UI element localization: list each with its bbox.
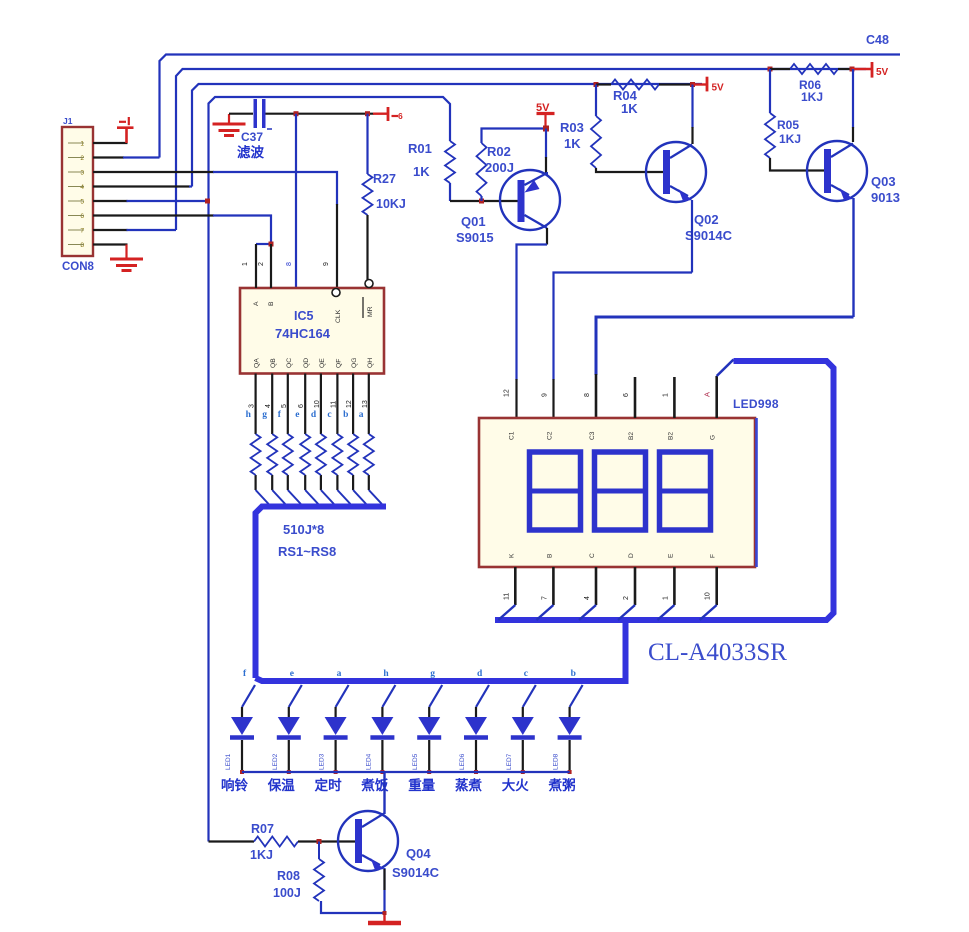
node R06 left [768, 67, 773, 72]
wire Q03 collector [852, 69, 854, 142]
wire IC output stubs [256, 374, 369, 491]
svg-text:定时: 定时 [315, 777, 342, 793]
resistor R02 [477, 143, 514, 196]
label CON8 [62, 261, 95, 273]
svg-text:8: 8 [80, 242, 84, 249]
wire display bottom diagonals [498, 605, 716, 620]
svg-text:煮粥: 煮粥 [548, 777, 576, 793]
wire R05 to Q03 base [770, 158, 825, 171]
svg-text:CL-A4033SR: CL-A4033SR [648, 639, 787, 666]
svg-text:5: 5 [281, 404, 288, 408]
wire R27 to IC MR [366, 215, 368, 280]
wire R06 to R05 [769, 69, 771, 113]
svg-text:e: e [290, 669, 294, 679]
svg-text:d: d [311, 410, 317, 420]
transistor Q02 S9014C [646, 142, 706, 202]
svg-text:1KJ: 1KJ [250, 848, 273, 862]
svg-text:b: b [343, 410, 348, 420]
wire IC pin A [256, 244, 271, 288]
wire top bus line 3 [192, 84, 702, 187]
svg-text:74HC164: 74HC164 [275, 326, 331, 341]
svg-text:100J: 100J [273, 886, 301, 900]
wire pin7 [93, 229, 176, 231]
svg-text:9: 9 [541, 393, 548, 397]
LED LED6 [455, 669, 489, 793]
svg-text:h: h [383, 669, 389, 679]
wire C37 right [266, 113, 375, 115]
pin numbers IC bottom [249, 400, 369, 408]
svg-text:B2: B2 [628, 432, 635, 440]
net label C48 [866, 33, 889, 47]
label Q04 [392, 846, 440, 880]
svg-text:R05: R05 [777, 118, 799, 132]
resistor R05 [765, 113, 801, 158]
wire Q04 emitter [321, 868, 385, 913]
power flag 5V Q01 [536, 102, 555, 126]
svg-text:1: 1 [662, 596, 669, 600]
svg-text:C48: C48 [866, 33, 889, 47]
resistor R06 [770, 64, 852, 104]
svg-text:J1: J1 [63, 116, 73, 126]
svg-text:A: A [703, 392, 712, 397]
svg-text:R01: R01 [408, 141, 432, 156]
wire C37 to R27 [366, 114, 368, 174]
svg-text:5V: 5V [876, 67, 889, 78]
transistor Q03 9013 [807, 141, 867, 201]
svg-text:QH: QH [367, 358, 374, 368]
svg-text:QA: QA [254, 358, 261, 368]
wire display pin4 stub [634, 377, 637, 418]
svg-text:C1: C1 [508, 431, 515, 440]
svg-text:R07: R07 [251, 822, 274, 836]
svg-text:A: A [253, 301, 260, 306]
op-amp IC5 74HC164 [240, 280, 384, 374]
wire Q01 emitter top [546, 172, 548, 176]
svg-text:c: c [524, 669, 528, 679]
svg-text:B2: B2 [667, 432, 674, 440]
svg-text:f: f [278, 410, 282, 420]
svg-text:B: B [268, 301, 275, 306]
wire top bus line 2 [176, 69, 866, 230]
wire gnd to C37 [229, 113, 253, 115]
svg-text:510J*8: 510J*8 [283, 522, 324, 537]
wire display pin5 stub [673, 377, 676, 418]
svg-text:LED5: LED5 [412, 753, 419, 770]
svg-text:LED3: LED3 [319, 753, 326, 770]
svg-text:F: F [710, 554, 717, 558]
LED LED7 [502, 669, 536, 793]
wire pin1 [93, 142, 128, 144]
svg-text:e: e [295, 410, 299, 420]
wire RS diagonals [256, 490, 382, 504]
svg-text:K: K [508, 553, 515, 558]
svg-text:13: 13 [362, 400, 369, 408]
wire Q03 emitter to display pin3 [596, 198, 854, 418]
node C37 node A [294, 111, 299, 116]
svg-text:7: 7 [80, 228, 84, 235]
label C37 [241, 130, 263, 144]
svg-text:R02: R02 [487, 144, 511, 159]
resistor R08 [273, 842, 324, 902]
svg-text:c: c [327, 410, 331, 420]
svg-text:重量: 重量 [408, 777, 435, 793]
svg-text:LED998: LED998 [733, 397, 779, 411]
label LED998 [733, 397, 779, 411]
wire C37 to IC pin [295, 114, 297, 288]
resistor R01 [408, 141, 455, 183]
capacitor C37 [254, 99, 273, 129]
svg-text:6: 6 [80, 213, 84, 220]
svg-text:8: 8 [584, 393, 591, 397]
svg-text:MR: MR [367, 306, 374, 317]
node 5V junction [543, 126, 549, 132]
svg-text:f: f [243, 669, 247, 679]
wire pin8 [93, 245, 128, 260]
svg-text:4: 4 [265, 404, 272, 408]
svg-text:IC5: IC5 [294, 309, 314, 323]
label Q03 [871, 174, 900, 205]
node C37 node B [365, 111, 370, 116]
node A/B junction [269, 242, 274, 247]
svg-text:QD: QD [303, 358, 310, 368]
pin labels display bottom [503, 592, 711, 600]
resistor R07 [250, 822, 298, 862]
svg-text:Q03: Q03 [871, 174, 896, 189]
wire R07 to base [298, 840, 355, 842]
svg-text:4: 4 [584, 596, 591, 600]
power flag C37 right [373, 107, 403, 121]
svg-text:1K: 1K [564, 136, 581, 151]
svg-text:Q01: Q01 [461, 214, 486, 229]
svg-text:R08: R08 [277, 869, 300, 883]
LED LED1 [221, 669, 255, 793]
svg-text:a: a [359, 410, 364, 420]
label 510J*8 [283, 522, 324, 537]
svg-text:响铃: 响铃 [221, 777, 248, 793]
svg-text:a: a [337, 669, 342, 679]
svg-text:1: 1 [80, 141, 84, 148]
LED LED3 [315, 669, 349, 793]
label CL-A4033SR [648, 639, 787, 666]
wire display pin6 loop [495, 360, 834, 621]
svg-text:b: b [571, 669, 576, 679]
transistor Q04 S9014C [338, 811, 398, 871]
svg-text:11: 11 [503, 593, 510, 600]
svg-text:10: 10 [314, 400, 321, 408]
power flag pin1 [117, 117, 134, 143]
label C37 chinese [237, 144, 264, 160]
svg-text:R03: R03 [560, 120, 584, 135]
svg-text:9: 9 [323, 262, 330, 266]
svg-text:1: 1 [662, 393, 669, 397]
resistor R04 [596, 80, 692, 117]
svg-text:S9015: S9015 [456, 230, 494, 245]
label Q02 [685, 212, 733, 243]
node R06 right [850, 67, 855, 72]
label Q01 [456, 214, 494, 245]
svg-text:10: 10 [705, 592, 712, 600]
svg-text:LED2: LED2 [272, 753, 279, 770]
node Q01 base node [479, 199, 484, 204]
transistor Q01 S9015 [500, 170, 560, 230]
svg-text:Q02: Q02 [694, 212, 719, 227]
label RS1~RS8 [278, 544, 336, 559]
svg-text:滤波: 滤波 [237, 144, 264, 160]
svg-text:1K: 1K [621, 101, 638, 116]
svg-text:LED7: LED7 [506, 753, 513, 770]
svg-text:QE: QE [319, 358, 326, 368]
svg-text:QF: QF [335, 359, 342, 368]
svg-text:QG: QG [351, 357, 358, 368]
svg-text:200J: 200J [485, 160, 514, 175]
node R04 right [690, 82, 695, 87]
ground C37 [213, 114, 246, 136]
svg-text:8: 8 [286, 262, 293, 266]
wire Q02 emitter to display pin2 [554, 200, 693, 418]
svg-text:2: 2 [623, 596, 630, 600]
svg-text:2: 2 [258, 262, 265, 266]
svg-text:3: 3 [249, 404, 256, 408]
pin numbers IC top [242, 262, 330, 266]
svg-text:C37: C37 [241, 130, 263, 144]
wire display-to-LED vertical [623, 622, 629, 681]
svg-text:CON8: CON8 [62, 261, 95, 273]
svg-text:6: 6 [623, 393, 630, 397]
svg-text:S9014C: S9014C [392, 865, 440, 880]
svg-text:11: 11 [330, 401, 337, 408]
label J1 [63, 116, 73, 126]
wire 5V to R02 [482, 129, 544, 144]
svg-text:B: B [546, 553, 553, 558]
svg-text:1KJ: 1KJ [779, 132, 801, 146]
svg-text:保温: 保温 [267, 777, 295, 793]
wire LED bus [256, 678, 629, 681]
svg-text:C2: C2 [546, 431, 553, 440]
node R04 left [594, 82, 599, 87]
wire R04 to R03 [595, 85, 597, 117]
svg-text:LED6: LED6 [459, 753, 466, 770]
svg-text:C: C [589, 553, 596, 558]
svg-text:LED8: LED8 [553, 753, 560, 770]
display CL-A4033SR [479, 418, 757, 567]
resistor network RS1-RS8 510Jx8 [251, 434, 374, 475]
wire top bus line 1 [160, 55, 901, 158]
wire left rail to R07 [209, 840, 255, 842]
svg-text:大火: 大火 [502, 777, 529, 793]
wire RS bus [256, 507, 387, 679]
svg-text:QC: QC [286, 358, 293, 368]
svg-text:1: 1 [242, 262, 249, 266]
wire IC pin B [270, 244, 272, 288]
power flag 5V R04 [693, 77, 725, 94]
svg-text:LED1: LED1 [225, 753, 232, 770]
svg-text:蒸煮: 蒸煮 [455, 777, 482, 793]
segment letters [246, 410, 364, 420]
power flag 5V top right [852, 62, 889, 78]
LED LED5 [408, 669, 442, 793]
svg-text:h: h [246, 410, 252, 420]
svg-text:5: 5 [80, 199, 84, 206]
svg-text:4: 4 [80, 184, 84, 191]
wire pin4 [93, 185, 192, 187]
node pin5/left-rail junction [205, 199, 210, 204]
wire pin3 [93, 172, 337, 288]
LED LED8 [548, 669, 583, 793]
svg-text:9013: 9013 [871, 190, 900, 205]
wire R01 bottom [450, 183, 518, 201]
svg-text:g: g [430, 669, 435, 679]
wire R03 to Q02 base [596, 168, 663, 172]
wire pin6 [93, 216, 271, 245]
svg-text:E: E [667, 553, 674, 558]
svg-text:2: 2 [80, 155, 84, 162]
svg-text:10KJ: 10KJ [376, 197, 406, 211]
svg-text:Q04: Q04 [406, 846, 431, 861]
wire 5V to Q01 emitter [545, 129, 547, 174]
svg-text:LED4: LED4 [365, 753, 372, 770]
LED LED4 [360, 669, 395, 793]
svg-text:G: G [710, 435, 717, 440]
wire Q02 collector [691, 85, 693, 145]
resistor R27 [363, 172, 406, 215]
svg-text:C3: C3 [589, 431, 596, 440]
node Q04 base node [317, 839, 322, 844]
connector CON8 [62, 127, 93, 256]
wire display bottom stubs [515, 567, 716, 605]
pin labels display top [503, 389, 711, 397]
svg-text:1K: 1K [413, 164, 430, 179]
svg-text:7: 7 [541, 596, 548, 600]
wire LED common [242, 771, 570, 773]
ground Q04 [368, 911, 401, 923]
svg-text:6: 6 [398, 111, 403, 121]
svg-text:12: 12 [346, 400, 353, 408]
svg-text:R27: R27 [373, 172, 396, 186]
svg-text:QB: QB [270, 358, 277, 368]
svg-text:g: g [262, 410, 267, 420]
wire Q01 collector to display pin1 [517, 228, 548, 418]
wire pin5 [93, 200, 209, 202]
ground pin8 [110, 259, 143, 271]
svg-text:CLK: CLK [335, 309, 342, 323]
wire pin2 [93, 156, 160, 158]
wire R02 bottom [480, 196, 482, 201]
wire LED common to Q04 collector [383, 772, 385, 814]
svg-text:3: 3 [80, 170, 84, 177]
svg-text:D: D [628, 553, 635, 558]
svg-text:d: d [477, 669, 483, 679]
LED LED2 [267, 669, 302, 793]
svg-text:1KJ: 1KJ [801, 90, 823, 104]
svg-text:5V: 5V [712, 83, 725, 94]
wire top bus line 4 / left rail [209, 97, 451, 842]
svg-text:6: 6 [298, 404, 305, 408]
svg-text:RS1~RS8: RS1~RS8 [278, 544, 336, 559]
svg-text:12: 12 [503, 389, 510, 397]
resistor R03 [560, 116, 601, 168]
